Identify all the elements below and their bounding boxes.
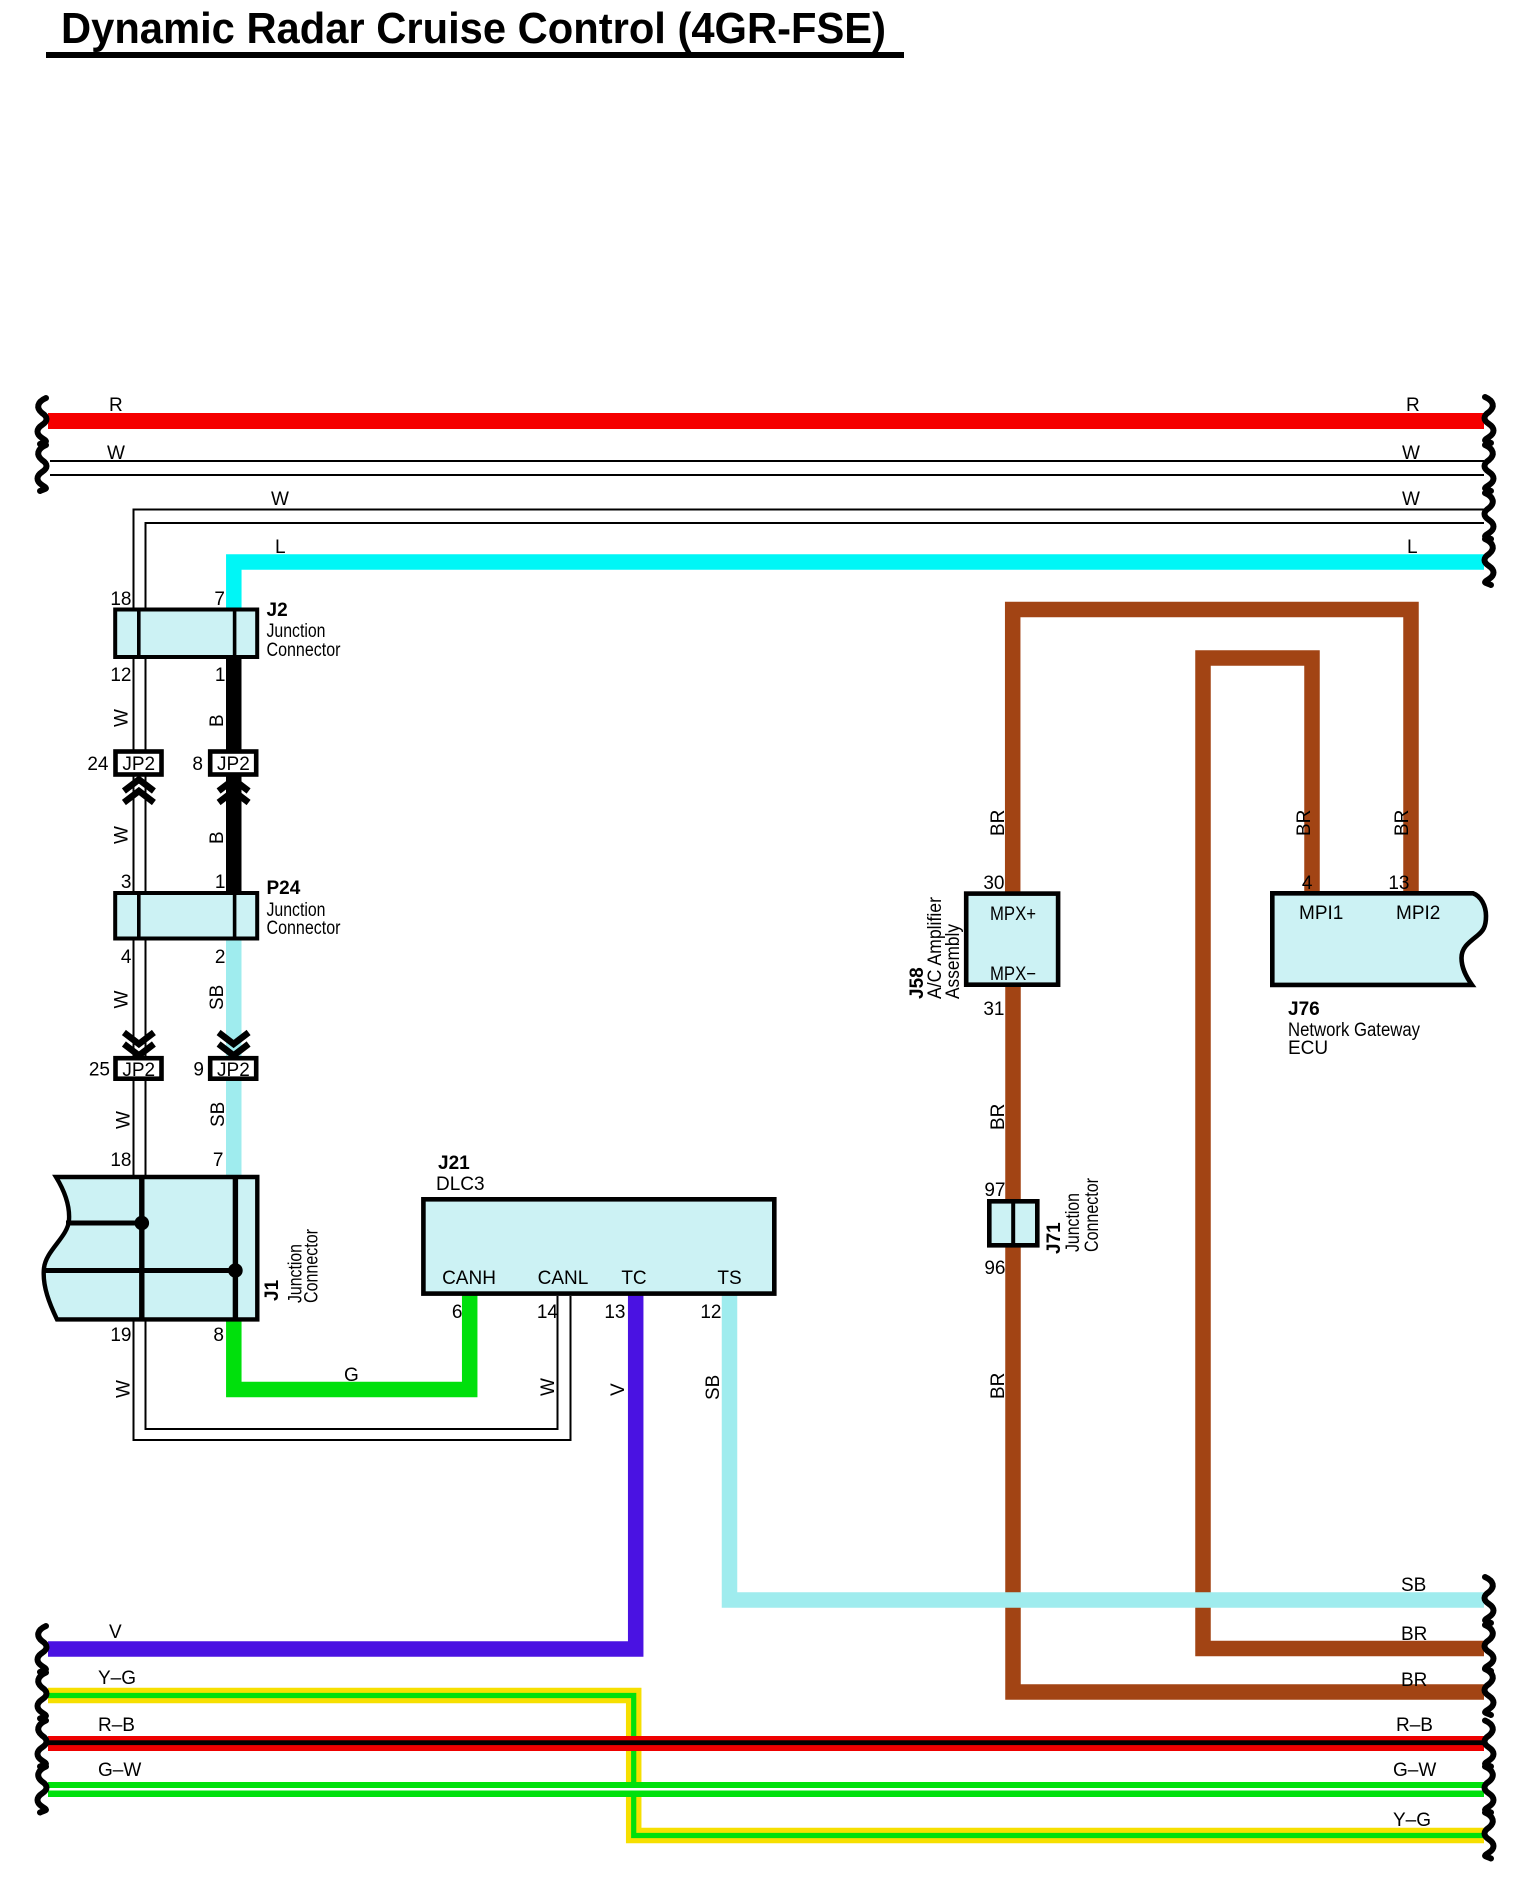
brace left W — [38, 445, 47, 491]
svg-text:R–B: R–B — [98, 1715, 135, 1736]
svg-text:W: W — [271, 489, 289, 510]
svg-text:8: 8 — [213, 1325, 224, 1346]
svg-text:J21: J21 — [438, 1153, 470, 1174]
wire SB (P24 pin 2 to J1 pin 7 via JP2) — [226, 940, 242, 1176]
wire R-B (red/black) — [48, 1736, 1484, 1751]
svg-text:TC: TC — [621, 1268, 646, 1289]
junction connector J1 (torn left edge) — [44, 1175, 258, 1322]
svg-text:G: G — [344, 1365, 359, 1386]
svg-text:W: W — [112, 709, 133, 727]
brace left G-W — [38, 1767, 47, 1813]
wire G (green, J1 pin 8 to DLC3 CANH pin 6) — [234, 1294, 470, 1390]
svg-text:B: B — [207, 831, 228, 844]
brace left Y-G — [38, 1673, 47, 1719]
svg-text:L: L — [275, 537, 286, 558]
svg-text:9: 9 — [193, 1060, 204, 1081]
svg-text:14: 14 — [537, 1302, 559, 1323]
svg-text:B: B — [207, 714, 228, 727]
svg-text:J1: J1 — [262, 1279, 283, 1301]
svg-text:MPI2: MPI2 — [1396, 903, 1440, 924]
wire SB (DLC3 TS pin 12 to right edge) — [730, 1294, 1485, 1600]
svg-text:96: 96 — [984, 1258, 1005, 1279]
svg-text:CANL: CANL — [538, 1268, 589, 1289]
connector JP2 (9) row2 — [210, 1033, 256, 1079]
svg-text:R–B: R–B — [1396, 1715, 1433, 1736]
svg-text:1: 1 — [215, 665, 226, 686]
brace right R-B — [1485, 1721, 1494, 1767]
brace right BR1 — [1485, 1625, 1494, 1671]
wire Y-G (yellow/green, left edge down to right edge) — [48, 1696, 1484, 1836]
svg-text:TS: TS — [717, 1268, 741, 1289]
wire W1 (white wire, top full width) — [50, 461, 1484, 475]
svg-text:W: W — [107, 443, 125, 464]
svg-text:Assembly: Assembly — [943, 924, 964, 999]
svg-text:W: W — [1402, 443, 1420, 464]
svg-text:4: 4 — [1302, 873, 1313, 894]
svg-text:97: 97 — [984, 1180, 1005, 1201]
svg-text:Junction: Junction — [1063, 1193, 1084, 1252]
svg-text:L: L — [1407, 537, 1418, 558]
svg-text:Y–G: Y–G — [1393, 1810, 1431, 1831]
brace left R-B — [38, 1721, 47, 1767]
svg-text:12: 12 — [110, 665, 131, 686]
svg-text:7: 7 — [214, 589, 225, 610]
svg-text:30: 30 — [983, 873, 1004, 894]
wire B (black, J2 pin 1 to P24 pin 1 via JP2) — [226, 659, 242, 891]
svg-text:Y–G: Y–G — [98, 1668, 136, 1689]
wire BR C (brown, J58 MPX- pin 31 through J71 to right edge) — [1013, 985, 1484, 1692]
svg-text:18: 18 — [110, 589, 131, 610]
brace right SB — [1485, 1577, 1494, 1623]
svg-text:J76: J76 — [1288, 999, 1320, 1020]
svg-text:13: 13 — [604, 1302, 625, 1323]
wire L (cyan, right edge to J2 pin 7) — [234, 562, 1484, 609]
junction connector J71 — [989, 1199, 1037, 1248]
svg-text:JP2: JP2 — [217, 754, 250, 775]
wire V (violet, DLC3 TC pin 13 to left edge) — [48, 1294, 636, 1649]
svg-text:13: 13 — [1388, 873, 1409, 894]
svg-text:3: 3 — [121, 872, 132, 893]
svg-text:R: R — [109, 395, 123, 416]
svg-text:18: 18 — [110, 1150, 131, 1171]
svg-text:Dynamic Radar Cruise Control (: Dynamic Radar Cruise Control (4GR-FSE) — [61, 4, 886, 53]
svg-text:JP2: JP2 — [122, 754, 155, 775]
svg-text:BR: BR — [1401, 1670, 1427, 1691]
junction connector J2 — [115, 608, 257, 660]
svg-text:24: 24 — [87, 754, 109, 775]
wire BR A (brown, J58 MPX+ pin 30 to J76 MPI2 pin 13) — [1013, 610, 1411, 894]
svg-text:6: 6 — [452, 1302, 463, 1323]
svg-text:25: 25 — [89, 1060, 110, 1081]
svg-text:W: W — [112, 991, 133, 1009]
svg-text:8: 8 — [192, 754, 203, 775]
svg-text:V: V — [608, 1383, 629, 1396]
svg-text:J2: J2 — [267, 600, 288, 621]
svg-text:BR: BR — [1294, 810, 1315, 836]
svg-text:SB: SB — [208, 1102, 229, 1127]
title underline — [46, 52, 904, 58]
brace right G-W — [1485, 1767, 1494, 1813]
J1 internal bus line 2 — [45, 1268, 236, 1273]
svg-text:Junction: Junction — [267, 621, 326, 642]
svg-text:MPI1: MPI1 — [1299, 903, 1343, 924]
svg-text:W: W — [538, 1378, 559, 1396]
connector JP2 (24) row1 — [116, 752, 162, 803]
connector JP2 (8) row1 — [210, 752, 256, 803]
J1 internal bus line 1 — [66, 1221, 142, 1226]
svg-text:Connector: Connector — [267, 918, 342, 939]
svg-text:V: V — [109, 1622, 122, 1643]
svg-text:31: 31 — [983, 999, 1004, 1020]
connector J21 DLC3 — [423, 1199, 774, 1293]
brace left V — [38, 1626, 47, 1672]
brace right BR2 — [1485, 1669, 1494, 1715]
svg-text:CANH: CANH — [442, 1268, 496, 1289]
svg-text:Connector: Connector — [302, 1228, 323, 1303]
svg-text:ECU: ECU — [1288, 1038, 1328, 1059]
connector JP2 (25) row2 — [116, 1033, 162, 1079]
svg-text:MPX−: MPX− — [990, 964, 1036, 985]
svg-text:W: W — [1402, 489, 1420, 510]
brace right W — [1485, 445, 1494, 491]
svg-text:W: W — [114, 1380, 135, 1398]
svg-text:P24: P24 — [267, 878, 301, 899]
svg-text:BR: BR — [988, 1104, 1009, 1130]
svg-text:Connector: Connector — [267, 640, 342, 661]
svg-text:BR: BR — [988, 1373, 1009, 1399]
svg-text:BR: BR — [1401, 1624, 1427, 1645]
svg-text:R: R — [1406, 395, 1420, 416]
wire G-W (green/white) — [48, 1782, 1484, 1797]
svg-text:BR: BR — [988, 810, 1009, 836]
brace right W2 — [1485, 493, 1494, 539]
svg-text:SB: SB — [207, 985, 228, 1010]
brace right Y-G — [1485, 1813, 1494, 1859]
svg-text:7: 7 — [213, 1150, 224, 1171]
A/C amplifier J58 — [966, 894, 1058, 985]
svg-text:Connector: Connector — [1082, 1177, 1103, 1252]
brace right L — [1485, 539, 1494, 585]
svg-text:2: 2 — [215, 947, 226, 968]
svg-text:BR: BR — [1392, 810, 1413, 836]
wire W2 (white wire: right edge to J2/P24/J1 then to DLC3 CANL) — [134, 510, 1485, 1441]
svg-text:JP2: JP2 — [122, 1060, 155, 1081]
wire BR B (brown, J76 MPI1 pin 4 down to right edge) — [1203, 658, 1484, 1649]
svg-text:4: 4 — [121, 947, 132, 968]
svg-text:W: W — [114, 1111, 135, 1129]
brace left R — [38, 398, 47, 444]
svg-text:JP2: JP2 — [217, 1060, 250, 1081]
svg-text:G–W: G–W — [98, 1760, 141, 1781]
svg-text:SB: SB — [1401, 1575, 1426, 1596]
svg-text:MPX+: MPX+ — [990, 904, 1036, 925]
svg-text:SB: SB — [703, 1375, 724, 1400]
brace right R — [1485, 397, 1494, 443]
svg-text:W: W — [112, 826, 133, 844]
svg-text:12: 12 — [700, 1302, 721, 1323]
svg-text:1: 1 — [215, 872, 226, 893]
svg-text:DLC3: DLC3 — [436, 1174, 485, 1195]
svg-text:J71: J71 — [1044, 1222, 1065, 1254]
wire R (red power wire, top) — [48, 413, 1484, 429]
svg-text:19: 19 — [110, 1325, 131, 1346]
network gateway ECU J76 (torn right edge) — [1272, 893, 1486, 985]
svg-text:G–W: G–W — [1393, 1760, 1436, 1781]
junction connector P24 — [115, 891, 257, 941]
